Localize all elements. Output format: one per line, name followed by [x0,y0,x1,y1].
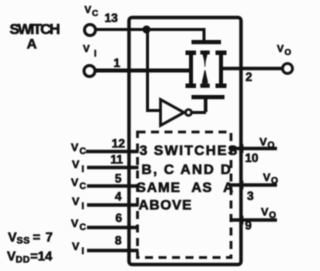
svg-text:I: I [94,49,97,59]
svg-text:12: 12 [112,137,126,151]
svg-text:VDD=14: VDD=14 [7,249,53,266]
svg-text:V: V [71,142,79,154]
svg-text:V: V [277,44,284,55]
svg-text:9: 9 [245,219,252,233]
svg-text:V: V [71,177,79,189]
svg-text:C: C [80,181,87,191]
svg-text:O: O [269,210,276,220]
svg-text:C: C [80,222,87,232]
svg-text:4: 4 [115,190,122,204]
svg-text:8: 8 [115,234,122,248]
svg-text:I: I [82,201,85,212]
svg-text:B, C AND D: B, C AND D [142,161,233,177]
svg-text:V: V [85,5,92,16]
svg-text:10: 10 [245,151,259,165]
svg-text:1: 1 [114,56,121,70]
svg-text:SAME AS A: SAME AS A [137,179,235,195]
svg-text:ABOVE: ABOVE [139,197,193,213]
svg-text:V: V [72,241,80,253]
svg-text:C: C [80,146,87,156]
svg-text:O: O [268,140,275,150]
svg-text:A: A [27,35,37,51]
svg-text:V: V [261,207,269,219]
svg-text:V: V [72,196,80,208]
svg-text:I: I [82,246,85,257]
svg-text:3: 3 [247,189,254,203]
svg-text:I: I [82,164,85,175]
svg-text:O: O [285,47,292,57]
svg-text:5: 5 [115,172,122,186]
svg-text:13: 13 [105,11,119,25]
svg-text:2: 2 [246,70,253,84]
svg-text:V: V [260,137,268,149]
svg-text:V: V [71,218,79,230]
svg-text:3 SWITCHES: 3 SWITCHES [140,142,239,158]
svg-text:V: V [83,44,90,55]
svg-text:V: V [263,172,271,184]
svg-text:V: V [72,159,80,171]
svg-text:C: C [92,8,98,18]
svg-text:VSS = 7: VSS = 7 [8,230,53,247]
svg-text:O: O [271,176,278,186]
svg-text:6: 6 [115,211,122,225]
svg-text:11: 11 [110,153,123,167]
